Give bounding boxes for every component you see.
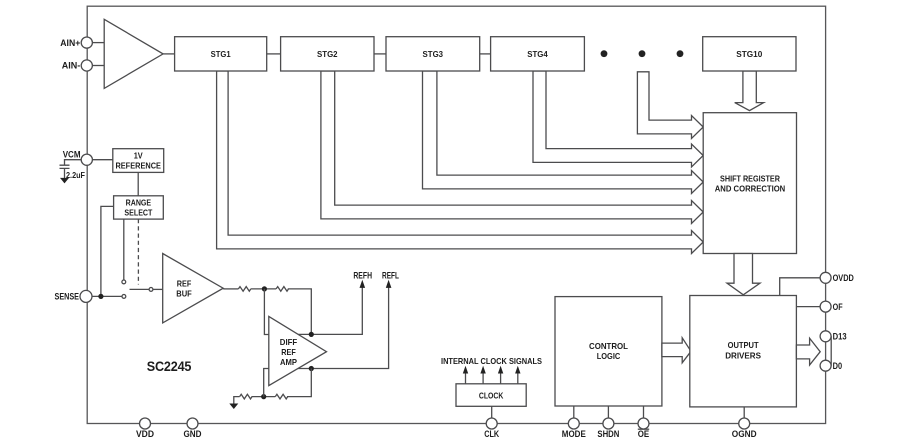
bus arrow from later stages to shift register bbox=[637, 72, 703, 139]
svg-text:REF: REF bbox=[177, 278, 192, 288]
wire 1V reference to range select bbox=[137, 172, 139, 195]
wire bbox=[251, 288, 276, 290]
svg-text:AMP: AMP bbox=[280, 357, 297, 367]
svg-text:SC2245: SC2245 bbox=[147, 359, 192, 374]
svg-text:BUF: BUF bbox=[176, 288, 192, 298]
block STG2 bbox=[281, 37, 374, 71]
pin SHDN bbox=[603, 418, 614, 429]
svg-text:CLOCK: CLOCK bbox=[479, 390, 504, 400]
block output drivers bbox=[690, 296, 797, 407]
wire feedback to diff amp upper input bbox=[264, 289, 268, 335]
block STG1 bbox=[175, 37, 267, 71]
svg-text:VDD: VDD bbox=[136, 429, 154, 439]
pin GND bbox=[187, 418, 198, 429]
dashed control line from range select to switch bbox=[137, 219, 139, 284]
pin D13 bbox=[820, 331, 831, 342]
svg-text:STG2: STG2 bbox=[317, 49, 338, 59]
svg-text:SHDN: SHDN bbox=[597, 429, 619, 439]
svg-text:AIN+: AIN+ bbox=[60, 38, 80, 48]
svg-text:REFERENCE: REFERENCE bbox=[115, 161, 161, 171]
switch contact lower bbox=[122, 295, 126, 299]
block control logic bbox=[555, 297, 662, 406]
resistor R top1 bbox=[238, 287, 250, 292]
pin VCM bbox=[81, 154, 92, 165]
switch contact upper bbox=[122, 280, 126, 284]
svg-text:STG4: STG4 bbox=[527, 49, 548, 59]
block clock bbox=[456, 384, 526, 407]
wire ref buf output rail bbox=[223, 288, 238, 290]
pin SENSE bbox=[80, 290, 92, 302]
svg-text:1V: 1V bbox=[134, 151, 143, 161]
svg-text:INTERNAL CLOCK SIGNALS: INTERNAL CLOCK SIGNALS bbox=[441, 356, 542, 366]
svg-text:OE: OE bbox=[638, 429, 649, 439]
bus arrow output drivers to data pins bbox=[796, 338, 820, 365]
block shift register and correction bbox=[703, 113, 796, 254]
svg-text:OVDD: OVDD bbox=[833, 273, 855, 283]
arrow REFH bbox=[360, 280, 366, 288]
svg-text:SHIFT REGISTER: SHIFT REGISTER bbox=[720, 173, 780, 183]
bus arrow shift register to output drivers bbox=[727, 254, 760, 295]
svg-text:LOGIC: LOGIC bbox=[597, 351, 621, 361]
svg-text:REFL: REFL bbox=[382, 270, 399, 280]
node ref buf output bbox=[262, 286, 267, 291]
svg-text:GND: GND bbox=[184, 429, 202, 439]
bus arrow STG10 down to shift register bbox=[735, 71, 764, 111]
svg-text:SELECT: SELECT bbox=[124, 208, 153, 218]
ground for capacitor bbox=[60, 178, 69, 184]
op-amp DIFF REF AMP bbox=[269, 316, 327, 385]
svg-text:STG3: STG3 bbox=[423, 49, 444, 59]
svg-text:AND CORRECTION: AND CORRECTION bbox=[715, 184, 786, 194]
svg-text:OUTPUT: OUTPUT bbox=[728, 340, 760, 350]
clock arrow 4 bbox=[517, 373, 519, 384]
wire STG2-STG3 bbox=[374, 53, 386, 55]
pin AIN+ bbox=[81, 37, 92, 48]
svg-text:CLK: CLK bbox=[484, 429, 499, 439]
clock arrow 3 bbox=[500, 373, 502, 384]
svg-text:RANGE: RANGE bbox=[126, 198, 152, 208]
wire STG3-STG4 bbox=[480, 53, 491, 55]
svg-text:VCM: VCM bbox=[63, 149, 81, 159]
svg-text:MODE: MODE bbox=[562, 429, 586, 439]
svg-text:STG10: STG10 bbox=[736, 49, 762, 59]
bus arrow STG4 to shift register bbox=[533, 71, 703, 167]
op-amp REF BUF bbox=[163, 254, 224, 323]
resistor R top2 bbox=[276, 287, 288, 292]
pin VDD bbox=[140, 418, 151, 429]
capacitor C 2.2uF bbox=[60, 160, 82, 178]
clock arrow 1 bbox=[465, 373, 467, 384]
wire output drivers to OGND pin bbox=[743, 407, 745, 418]
svg-text:DIFF: DIFF bbox=[280, 337, 297, 347]
wire AIN- to amp bbox=[92, 65, 104, 67]
pin CLK bbox=[486, 418, 497, 429]
node upper tap bbox=[309, 332, 314, 337]
svg-text:REF: REF bbox=[281, 347, 296, 357]
block STG3 bbox=[386, 37, 480, 71]
arrow REFL bbox=[386, 280, 392, 288]
wire STG1-STG2 bbox=[267, 53, 281, 55]
wire switch to ref buf bbox=[153, 288, 163, 290]
op-amp input buffer bbox=[104, 19, 163, 88]
wire upper tap to REFH bbox=[298, 287, 362, 334]
wire bottom rail corner up bbox=[287, 369, 311, 397]
pin AIN- bbox=[81, 60, 92, 71]
wire control logic to SHDN pin bbox=[607, 406, 609, 418]
wire VCM to 1V reference bbox=[92, 159, 113, 161]
block range select bbox=[114, 196, 164, 219]
wire D13-D0 bus bar bbox=[830, 336, 832, 365]
resistor R bottom2 bbox=[275, 394, 287, 399]
svg-text:STG1: STG1 bbox=[211, 49, 231, 59]
wire OVDD to output drivers bbox=[780, 278, 820, 296]
pin OGND bbox=[739, 418, 750, 429]
svg-text:AIN-: AIN- bbox=[62, 61, 81, 71]
bus arrow STG1 to shift register bbox=[217, 71, 704, 254]
chip boundary bbox=[87, 6, 825, 423]
svg-text:D0: D0 bbox=[833, 361, 843, 371]
wire range select to switch contact bbox=[123, 219, 125, 280]
ellipsis dot 1 bbox=[601, 50, 608, 57]
pin OF bbox=[820, 301, 831, 312]
block STG4 bbox=[491, 37, 585, 71]
node SENSE junction bbox=[98, 294, 103, 299]
wire control logic to MODE pin bbox=[573, 406, 575, 418]
switch pole blade bbox=[130, 288, 150, 290]
block STG10 bbox=[703, 37, 796, 71]
wire control logic to OE pin bbox=[643, 406, 645, 418]
ellipsis dot 2 bbox=[639, 50, 646, 57]
pin OVDD bbox=[820, 272, 831, 283]
pin MODE bbox=[568, 418, 579, 429]
wire top rail corner down bbox=[288, 289, 312, 335]
svg-text:OGND: OGND bbox=[732, 429, 757, 439]
ellipsis dot 3 bbox=[677, 50, 684, 57]
ground for feedback divider bbox=[234, 397, 240, 404]
wire SENSE to switch bbox=[92, 295, 122, 297]
wire OF to output drivers bbox=[796, 306, 820, 308]
block 1V reference bbox=[113, 149, 164, 173]
node feedback bottom bbox=[261, 394, 266, 399]
wire clock to CLK pin bbox=[491, 406, 493, 418]
svg-text:2.2uF: 2.2uF bbox=[66, 170, 85, 180]
resistor R bottom1 bbox=[240, 394, 252, 399]
svg-text:REFH: REFH bbox=[353, 270, 372, 280]
wire bbox=[252, 396, 276, 398]
pin D0 bbox=[820, 360, 831, 371]
wire lower tap to REFL bbox=[298, 287, 389, 369]
svg-text:SENSE: SENSE bbox=[55, 292, 80, 302]
svg-text:OF: OF bbox=[833, 302, 843, 312]
bus arrow STG3 to shift register bbox=[423, 71, 704, 194]
wire range select to SENSE node bbox=[101, 206, 114, 296]
wire feedback to diff amp lower input bbox=[264, 369, 269, 397]
node lower tap bbox=[309, 366, 314, 371]
pin OE (active low) bbox=[638, 418, 649, 429]
wire AIN+ to amp bbox=[92, 42, 104, 44]
clock arrow 2 bbox=[482, 373, 484, 384]
bus arrow STG2 to shift register bbox=[321, 71, 703, 224]
svg-text:D13: D13 bbox=[833, 332, 847, 342]
wire amp to STG1 bbox=[163, 53, 175, 55]
bus arrow control logic to output drivers bbox=[662, 338, 691, 363]
switch pole contact bbox=[149, 288, 153, 292]
svg-text:DRIVERS: DRIVERS bbox=[725, 351, 761, 361]
svg-text:CONTROL: CONTROL bbox=[589, 341, 628, 351]
